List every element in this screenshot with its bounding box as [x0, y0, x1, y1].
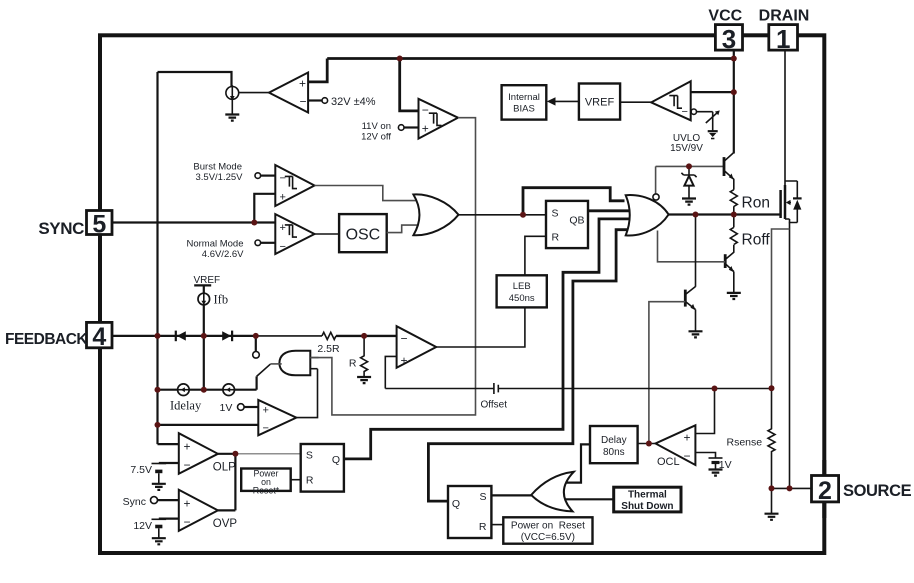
svg-text:−: − — [401, 332, 408, 346]
svg-text:SOURCE: SOURCE — [843, 482, 912, 500]
svg-text:Normal Mode: Normal Mode — [186, 238, 243, 249]
wire Idelay rail — [158, 389, 257, 391]
terminal Sync — [123, 496, 179, 508]
svg-text:Q: Q — [452, 498, 460, 510]
wire OR1 output to latch S — [459, 214, 547, 216]
wire OR2 to Q2 base — [658, 231, 726, 262]
comparator OCL — [638, 425, 696, 468]
node OCL output / Q3 base tap — [646, 441, 652, 447]
svg-text:OVP: OVP — [213, 518, 238, 530]
node switch tap — [253, 333, 259, 339]
or-gate OR1 — [413, 194, 458, 235]
wire VCC top rail — [327, 57, 734, 60]
svg-text:+: + — [684, 431, 691, 445]
resistor 2.5R — [317, 332, 340, 355]
svg-text:Shut Down: Shut Down — [621, 501, 673, 512]
pin 3 stem — [733, 50, 735, 153]
wire Burst output to OR1 — [315, 186, 420, 201]
pin box VCC 3 — [715, 24, 742, 54]
svg-text:S: S — [479, 491, 486, 503]
ground below current source — [225, 99, 239, 120]
transistor Q1 (Ron driver) — [724, 153, 734, 190]
svg-text:VREF: VREF — [585, 97, 615, 109]
battery 12V — [133, 519, 178, 545]
svg-text:3: 3 — [722, 24, 736, 54]
svg-text:LEB: LEB — [513, 281, 531, 292]
svg-text:Idelay: Idelay — [170, 399, 202, 413]
svg-text:R: R — [479, 521, 487, 533]
box OSC — [339, 214, 387, 252]
comparator OVP — [179, 490, 238, 531]
svg-text:80ns: 80ns — [603, 447, 625, 458]
svg-text:4: 4 — [92, 323, 106, 351]
box Power on Reset VCC6.5 — [491, 517, 592, 543]
wire offset rail — [385, 383, 771, 411]
switch terminal below feedback rail — [253, 336, 260, 358]
resistor Ron — [730, 190, 770, 212]
label DRAIN — [759, 8, 810, 25]
label SOURCE — [843, 482, 912, 500]
wire top-left feed to current source — [158, 72, 232, 86]
svg-text:Burst Mode: Burst Mode — [193, 162, 242, 173]
wire 1V comp output to AND — [296, 369, 317, 418]
current source Ifb — [198, 285, 228, 389]
wire Q3 base to OCL node — [649, 302, 685, 444]
error amplifier U3 — [385, 326, 436, 388]
trimmed diode at UVLO input — [697, 110, 720, 138]
svg-text:+: + — [280, 222, 286, 234]
svg-text:Q: Q — [332, 454, 340, 466]
node VCC rail / 11V comp tap — [397, 56, 403, 62]
latch U2 S/R QB — [546, 201, 588, 248]
svg-text:−: − — [263, 423, 269, 435]
latch U4 (OLP/OVP) — [301, 444, 344, 492]
svg-text:11V on: 11V on — [362, 121, 391, 132]
battery 7.5V — [130, 463, 178, 490]
wire latch U4 Q to OR2 input — [344, 219, 636, 459]
svg-text:Thermal: Thermal — [628, 490, 667, 501]
resistor Rsense — [727, 388, 776, 488]
transistor Q3 — [685, 287, 695, 332]
svg-text:2: 2 — [818, 477, 832, 505]
diode D3 (left) — [176, 331, 186, 342]
pin box SYNC 5 — [87, 210, 113, 238]
svg-text:1V: 1V — [719, 459, 732, 471]
wire Roff to Q2 — [733, 245, 735, 253]
arrow VREF to Internal BIAS — [547, 97, 579, 105]
svg-text:−: − — [280, 241, 286, 253]
switch blade — [257, 364, 271, 390]
label SYNC — [38, 219, 84, 238]
svg-text:VCC: VCC — [708, 8, 742, 25]
svg-text:+: + — [184, 496, 191, 510]
comparator Normal Mode — [186, 214, 314, 260]
svg-text:1V: 1V — [220, 402, 233, 414]
node Idelay rail start — [155, 387, 161, 393]
svg-text:+: + — [299, 77, 306, 91]
svg-text:−: − — [684, 449, 691, 463]
ground below Q3 — [689, 331, 703, 337]
wire OLP node to latch S — [235, 453, 300, 455]
box Power on Reset (U4 reset) — [241, 469, 301, 496]
svg-text:OLP: OLP — [213, 461, 236, 473]
wire Normal output to OSC — [315, 233, 340, 235]
node R divider tap — [361, 333, 367, 339]
node Idelay rail / Ifb junction — [201, 387, 207, 393]
battery 1V at OCL — [695, 453, 731, 476]
label FEEDBACK — [5, 331, 88, 348]
svg-text:2.5R: 2.5R — [317, 343, 340, 355]
or-gate OR3 (pointing left) — [531, 472, 574, 512]
svg-text:(VCC=6.5V): (VCC=6.5V) — [521, 532, 575, 543]
svg-text:−: − — [422, 103, 429, 117]
node offset rail / OCL+ tap — [712, 386, 718, 392]
svg-text:+: + — [280, 191, 286, 203]
pin 2 border stubs — [822, 460, 826, 518]
svg-text:Internal: Internal — [508, 92, 540, 103]
node gate drive / Q3 tap — [693, 212, 699, 218]
or-gate OR2 (gate drive) — [626, 194, 669, 236]
wire OCL plus input to offset rail — [695, 389, 714, 434]
svg-text:Offset: Offset — [481, 400, 508, 411]
svg-text:−: − — [300, 95, 307, 109]
wire S-node over latch to OR2 top input — [523, 188, 625, 215]
node VCC pin junction — [731, 56, 737, 62]
wire SYNC rail — [112, 221, 275, 223]
wire OR2 output node down to Q3 — [695, 215, 697, 287]
svg-text:S: S — [552, 208, 559, 220]
wire NPN1 base rail — [656, 165, 724, 167]
box LEB 450ns — [497, 275, 547, 307]
wire QB to OR2 — [588, 209, 634, 212]
transistor Q2 (Roff driver) — [725, 252, 734, 292]
wire FEEDBACK rail — [112, 335, 397, 337]
box VREF — [579, 84, 620, 120]
node 1V comp tap — [155, 422, 161, 428]
svg-text:OCL: OCL — [657, 456, 680, 468]
svg-text:7.5V: 7.5V — [130, 464, 152, 476]
wire source row to pin 2 — [772, 487, 812, 489]
svg-text:3.5V/1.25V: 3.5V/1.25V — [195, 172, 243, 183]
pin box DRAIN 1 — [769, 24, 798, 54]
svg-text:12V: 12V — [133, 520, 152, 532]
diode D4 (right) — [222, 331, 232, 342]
node VCC / UVLO tap — [731, 89, 737, 95]
box Thermal Shut Down — [614, 487, 681, 512]
svg-text:Delay: Delay — [601, 435, 627, 446]
node source row / ground tap — [769, 485, 775, 491]
pin 1 stem / drain wire — [784, 50, 786, 185]
IC boundary — [100, 35, 824, 553]
wire source sense branch — [772, 229, 790, 388]
comparator 1V (delay comp) — [158, 400, 297, 435]
resistor R to ground — [349, 336, 371, 383]
svg-text:+: + — [263, 405, 269, 417]
svg-text:+: + — [401, 354, 408, 368]
comparator UVLO — [620, 81, 734, 154]
svg-text:−: − — [184, 458, 191, 472]
comparator OLP — [158, 433, 237, 474]
node OLP-OVP output junction — [232, 451, 238, 457]
svg-text:4.6V/2.6V: 4.6V/2.6V — [202, 249, 244, 260]
label VCC — [708, 8, 742, 25]
svg-text:QB: QB — [569, 215, 584, 227]
label VREF over Ifb — [194, 275, 221, 286]
node source line junction — [787, 485, 793, 491]
svg-text:−: − — [280, 173, 286, 185]
pin box SOURCE 2 — [812, 476, 839, 506]
svg-text:+: + — [184, 440, 191, 454]
node main vertical bus x157 — [156, 72, 158, 444]
latch U5 (OCL/TSD) — [448, 486, 491, 538]
node Ron-Roff junction — [731, 212, 737, 218]
svg-text:−: − — [184, 515, 191, 529]
wire OR2 output to MOSFET gate — [669, 213, 781, 215]
wire Ron-Roff column — [733, 206, 735, 227]
svg-text:R: R — [306, 475, 314, 487]
node latch S input tap — [520, 212, 526, 218]
svg-text:Sync: Sync — [123, 496, 146, 508]
zener D2 to ground — [681, 166, 696, 204]
svg-text:Ron: Ron — [742, 195, 770, 212]
wire OLP/OVP outputs join — [218, 454, 236, 511]
svg-text:S: S — [306, 450, 313, 462]
wire TSD to OR3 — [562, 498, 614, 500]
node FEEDBACK / bus junction — [155, 333, 161, 339]
current source I1 — [226, 85, 269, 100]
node Rsense top junction — [769, 385, 775, 391]
svg-text:450ns: 450ns — [509, 293, 535, 304]
and-gate A1 — [270, 351, 318, 376]
svg-text:DRAIN: DRAIN — [759, 8, 810, 25]
wire OSC output to OR1 — [387, 225, 422, 233]
svg-text:12V off: 12V off — [361, 132, 391, 143]
ground below Q2 — [727, 293, 741, 299]
svg-text:Reset*: Reset* — [253, 486, 280, 496]
box Internal BIAS — [502, 85, 547, 119]
current source I2 — [223, 384, 235, 396]
wire LEB bottom to error amp output — [436, 307, 525, 347]
svg-text:1: 1 — [776, 24, 790, 54]
svg-text:Ifb: Ifb — [214, 293, 229, 307]
wire UVLO node to OR2 bubble — [655, 166, 657, 194]
comparator Burst Mode — [193, 162, 314, 223]
wire MOSFET source down to pin2 row — [789, 223, 791, 489]
svg-text:OSC: OSC — [346, 227, 381, 244]
svg-text:Roff: Roff — [742, 232, 771, 249]
ground at source row — [765, 488, 779, 519]
node SYNC rail tap — [251, 220, 257, 226]
svg-text:15V/9V: 15V/9V — [670, 143, 703, 154]
svg-text:SYNC: SYNC — [38, 219, 84, 238]
svg-text:FEEDBACK: FEEDBACK — [5, 331, 88, 348]
wire latch R input from LEB — [525, 236, 546, 275]
svg-text:R: R — [552, 231, 560, 243]
wire Delay output to OR3 — [562, 444, 590, 482]
svg-text:32V ±4%: 32V ±4% — [331, 96, 376, 108]
svg-text:5: 5 — [92, 210, 106, 238]
svg-text:BIAS: BIAS — [513, 104, 535, 115]
svg-text:Rsense: Rsense — [727, 437, 763, 449]
resistor Roff — [730, 227, 770, 248]
pin box FEEDBACK 4 — [87, 322, 113, 351]
svg-text:−: − — [682, 106, 688, 118]
svg-text:Power on Reset: Power on Reset — [511, 521, 585, 532]
current source Idelay — [170, 384, 202, 413]
wire latch U5 Q to OR2 input — [428, 230, 633, 501]
node Q1 base / zener tap — [686, 163, 692, 169]
svg-text:+: + — [422, 122, 429, 136]
comparator 32V — [269, 59, 376, 113]
wire comparator 11V output to AND gate — [310, 118, 475, 415]
comparator 11V on / 12V off — [361, 59, 458, 143]
mosfet M1 with body diode — [781, 181, 802, 223]
svg-text:R: R — [349, 357, 357, 369]
box Delay 80ns — [590, 426, 638, 463]
wire OR3 output to latch U5 S — [491, 494, 531, 496]
node Ifb / feedback junction — [201, 333, 207, 339]
